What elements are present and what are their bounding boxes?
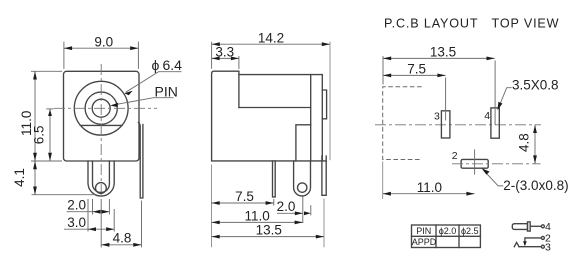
jack symbol: plug barrel bbox=[512, 224, 527, 230]
svg-text:4.1: 4.1 bbox=[12, 168, 27, 187]
dim 6.5 bbox=[31, 109, 53, 161]
wire from 3 bbox=[519, 246, 541, 248]
svg-text:7.5: 7.5 bbox=[235, 189, 254, 204]
plate inner edge bbox=[310, 75, 312, 161]
spec table bbox=[412, 225, 481, 248]
pad 2 bbox=[461, 159, 488, 168]
svg-text:6.4: 6.4 bbox=[163, 57, 183, 73]
svg-text:TOP VIEW: TOP VIEW bbox=[492, 16, 560, 30]
pad 3 bbox=[441, 111, 450, 138]
dim 4.8 (center to leg) bbox=[101, 199, 141, 247]
svg-text:2-(3.0x0.8): 2-(3.0x0.8) bbox=[503, 178, 568, 193]
svg-text:3.0: 3.0 bbox=[67, 215, 86, 230]
left pin bbox=[273, 161, 276, 197]
barrel separation line bbox=[238, 75, 240, 108]
svg-text:ϕ2.5: ϕ2.5 bbox=[461, 226, 479, 236]
svg-text:13.5: 13.5 bbox=[430, 45, 456, 60]
pcb centerline bbox=[375, 124, 541, 126]
side leg bbox=[138, 123, 143, 198]
TABLE + SYMBOL bbox=[412, 221, 552, 253]
vertical centerline bbox=[100, 64, 102, 197]
dim 11.0 left bbox=[19, 71, 62, 161]
terminal circle 2 bbox=[541, 236, 544, 239]
wire from 2 with down arrow bbox=[525, 238, 542, 244]
terminal circle 3 bbox=[541, 245, 544, 248]
svg-text:P.C.B LAYOUT: P.C.B LAYOUT bbox=[384, 16, 478, 30]
side body outline bbox=[212, 71, 327, 161]
svg-text:11.0: 11.0 bbox=[245, 209, 270, 224]
chord line in barrel bbox=[80, 124, 122, 126]
side tab with hole bbox=[294, 161, 311, 196]
mounting tab outer bbox=[88, 161, 114, 196]
svg-text:PIN: PIN bbox=[416, 226, 431, 236]
dim 2.0 (tab inner) bbox=[67, 198, 110, 215]
FRONT VIEW bbox=[12, 35, 182, 248]
svg-text:3.5X0.8: 3.5X0.8 bbox=[512, 77, 559, 92]
dim 11.0 (side) bbox=[212, 209, 303, 225]
pad 4 bbox=[491, 108, 499, 138]
horizontal centerline bbox=[54, 107, 157, 109]
svg-text:14.2: 14.2 bbox=[258, 31, 284, 46]
svg-text:4: 4 bbox=[484, 110, 490, 122]
SIDE VIEW bbox=[212, 31, 331, 248]
svg-text:9.0: 9.0 bbox=[94, 35, 113, 50]
barrel middle circle bbox=[85, 92, 117, 124]
tab hole bbox=[96, 183, 107, 194]
dim 2.0 (hole to edge) bbox=[277, 197, 311, 224]
jack symbol: tip bar bbox=[528, 222, 531, 231]
svg-text:PIN: PIN bbox=[155, 83, 178, 99]
label PIN with leader bbox=[110, 83, 178, 107]
svg-text:7.5: 7.5 bbox=[407, 62, 426, 77]
svg-text:2.0: 2.0 bbox=[67, 198, 86, 213]
right pin bbox=[322, 156, 326, 195]
svg-text:2: 2 bbox=[452, 150, 458, 162]
dim 14.2 bbox=[212, 31, 330, 161]
pad 2 vertical line bbox=[474, 149, 476, 174]
dim 7.5 bbox=[212, 165, 274, 248]
svg-text:4: 4 bbox=[545, 221, 551, 233]
svg-text:4.8: 4.8 bbox=[113, 231, 132, 246]
svg-text:13.5: 13.5 bbox=[256, 223, 282, 238]
dim 3.0 (tab outer) bbox=[64, 199, 114, 232]
dim 4.8 (pcb) bbox=[516, 125, 536, 164]
pad 3 center line bbox=[445, 78, 447, 121]
dim 13.5 (pcb) bbox=[383, 45, 495, 85]
switch lever bbox=[514, 242, 519, 246]
pad 2 centerline bbox=[452, 163, 541, 165]
dashed body outline bbox=[383, 87, 422, 160]
dim 13.5 (side) bbox=[212, 199, 325, 248]
center pin circle bbox=[92, 99, 110, 117]
svg-text:11.0: 11.0 bbox=[417, 180, 442, 195]
label phi 6.4 with leader bbox=[124, 57, 182, 95]
dim 11.0 (pcb) bbox=[383, 162, 475, 200]
dim 7.5 (pcb) bbox=[383, 62, 446, 78]
side tab hole bbox=[298, 183, 307, 192]
label 2-(3.0x0.8) with leader bbox=[482, 168, 569, 193]
svg-text:APPD: APPD bbox=[412, 237, 437, 247]
contact notch bbox=[296, 125, 311, 161]
svg-text:4.8: 4.8 bbox=[516, 133, 531, 152]
dim 3.3 bbox=[212, 45, 239, 69]
jack symbol: stem to 4 bbox=[530, 225, 541, 227]
side lug on plate bbox=[322, 90, 326, 119]
dim 4.1 bbox=[12, 161, 95, 195]
mounting tab inner bbox=[92, 161, 109, 192]
jack body front outline bbox=[64, 71, 140, 161]
svg-text:3: 3 bbox=[545, 241, 551, 253]
svg-text:3: 3 bbox=[434, 110, 440, 122]
internal horizontal line bbox=[239, 107, 311, 109]
TOP VIEW / PCB bbox=[375, 16, 569, 199]
terminal circle 4 bbox=[541, 225, 544, 228]
pad 4 center line bbox=[494, 61, 496, 126]
svg-text:3.3: 3.3 bbox=[215, 45, 234, 60]
svg-text:6.5: 6.5 bbox=[31, 125, 46, 144]
svg-text:2.0: 2.0 bbox=[277, 199, 296, 214]
label 3.5X0.8 with leader bbox=[498, 77, 559, 110]
svg-text:ϕ2.0: ϕ2.0 bbox=[439, 226, 457, 236]
svg-text:ϕ: ϕ bbox=[152, 57, 160, 73]
dim 9.0 bbox=[64, 35, 138, 69]
barrel outer circle bbox=[74, 81, 128, 135]
